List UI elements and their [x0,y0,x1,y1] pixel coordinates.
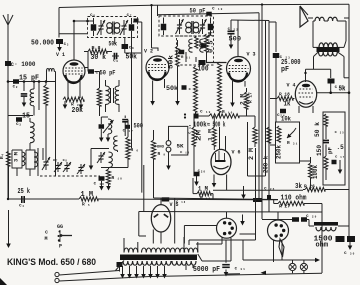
capacitor C30 electrolytic [336,236,356,242]
wire C23 down [275,58,277,122]
svg-text:50k: 50k [126,54,138,62]
wire OT frame [313,21,346,47]
svg-text:R 27: R 27 [279,204,290,210]
svg-text:c₃: c₃ [64,42,70,47]
wire T1 bottom taps [115,38,125,45]
svg-text:c· 1000: c· 1000 [11,61,36,68]
wire C25 down [317,84,351,94]
resistor R7 vertical [97,72,101,117]
ground arrow C18 [99,181,104,191]
capacitor T1 left [91,18,97,36]
ground arrow PT3 [141,266,146,279]
socket rectifier [217,215,245,239]
IF transformer T1 box [88,17,138,38]
svg-text:c₂: c₂ [13,85,18,90]
trimmer driver [97,152,105,163]
lamp PL1 [289,260,296,273]
svg-text:GG: GG [57,224,63,230]
label 110 ohm [281,195,307,203]
core T1 [113,22,115,35]
svg-text:10k: 10k [281,116,291,123]
svg-text:V 2: V 2 [144,49,153,55]
coil unit slug 1 [12,150,25,168]
svg-text:0.5 M: 0.5 M [208,32,215,53]
wire bus C [265,21,267,176]
capacitor C2 [13,79,20,89]
wire V6 legs [212,175,227,191]
label pF [281,66,289,74]
svg-text:R ₁₆: R ₁₆ [222,109,233,115]
wire bottom right bus [226,273,241,275]
ground arrow R10 [106,184,111,191]
tube V4 [295,81,316,107]
label 25.000 [281,59,301,67]
ground arrow PT5 [155,266,167,279]
label 500 block1 [134,123,144,130]
label 50.000 [31,40,54,48]
label R27 [279,204,290,210]
coil PT secondary [123,261,196,265]
coil RF pair A [106,80,110,112]
resistor R5 1M [79,197,98,208]
trimmer CT3 [63,159,72,172]
tube V2 [146,56,169,80]
resistor pot [277,126,281,142]
capacitor C17 [122,116,133,137]
coil T1 secondary [114,23,120,34]
coil RF pair B [115,80,119,112]
svg-text:c ₁₈: c ₁₈ [94,182,105,187]
capacitor C18 [94,176,105,186]
trimmer CT4 [77,164,85,174]
capacitor C9 [113,53,118,64]
wire lamp row top [243,240,320,262]
core PT [120,255,197,261]
svg-text:20k: 20k [72,107,84,115]
wire top B+ bus [59,4,349,7]
wire right edge [348,4,350,238]
svg-text:5K: 5K [177,143,185,150]
wire V1 grid top [73,57,75,60]
wire long vertical B [141,22,143,193]
coil voice B [313,17,346,21]
wire osc taps [186,52,196,62]
label 50 pF [100,70,116,77]
capacitor C10 [206,12,212,16]
wire V5 top [160,199,162,205]
wire block1 left [101,117,108,124]
wire driver bottom [101,168,128,170]
coil var block1 [103,119,114,142]
ground arrow tone [338,160,343,174]
ground arrow phono [166,152,171,170]
junction black [194,114,199,119]
coil osc A [189,39,193,52]
svg-text:KING'S Mod. 650 / 680: KING'S Mod. 650 / 680 [7,257,96,268]
trimmer T2 b [199,19,207,34]
resistor 2M mid [189,124,203,146]
svg-text:V 1: V 1 [56,52,65,58]
svg-text:ohm: ohm [316,242,329,250]
svg-text:5000 pF: 5000 pF [193,266,220,274]
trimmer T1 b [120,20,128,35]
svg-text:R ₃₁: R ₃₁ [287,140,298,146]
trimmer CT2 [53,159,62,172]
legend GG [57,224,63,230]
coil driver top [114,136,118,152]
wire C500 [229,20,234,49]
svg-text:c ₃₀: c ₃₀ [344,251,355,256]
junction blob IF1 out [133,19,142,23]
svg-text:c₉: c₉ [113,59,118,64]
svg-text:R ₁₅: R ₁₅ [200,195,211,201]
resistor R19 vert [253,121,257,147]
svg-text:2M: 2M [196,129,203,141]
label 50k mid [166,85,198,92]
tube V6 [211,149,231,174]
wire socket top [226,212,228,218]
label 1M left [81,191,94,199]
choke coil [316,227,336,231]
wire 2M mid [184,113,194,172]
svg-text:R 17: R 17 [248,92,254,103]
core T2 [192,21,193,34]
svg-text:c₄: c₄ [19,204,25,209]
resistor R20 vert [267,127,271,148]
svg-text:3 M: 3 M [13,151,20,162]
wire choke to caps [348,226,350,236]
label 5k [339,86,346,94]
capacitor C23 [273,53,291,60]
ground arrow C30 [348,242,353,250]
resistor R9 vert [151,130,165,198]
svg-text:2 M: 2 M [248,148,255,160]
svg-text:P: P [59,244,62,250]
wire C29 row [262,220,309,227]
svg-text:c₈: c₈ [63,159,68,163]
capacitor C4 [19,196,25,209]
svg-text:c₆: c₆ [90,13,96,18]
svg-text:100k≈: 100k≈ [193,122,210,130]
svg-text:50.000: 50.000 [31,40,54,48]
svg-text:c₂₀: c₂₀ [198,169,206,174]
label 15 lower [22,113,30,121]
label 50k lower [126,54,138,62]
capacitor C5b 50pF [88,69,101,75]
label 10k [281,116,291,123]
coil T2 secondary [193,22,199,33]
resistor R3 20k [63,97,84,102]
socket S2 pinout [268,220,289,241]
resistor 0.5M vert [205,34,209,62]
label R31 [287,140,298,146]
svg-text:c ₁₆: c ₁₆ [180,151,190,155]
label c19 [200,110,211,115]
wire V3 grid [206,20,238,62]
label 0.5 tone [335,131,345,151]
capacitor C11 [179,42,209,55]
label 100k 500k [193,122,226,130]
svg-text:.5: .5 [337,144,345,151]
coil OT top [313,43,344,48]
label FONO [155,146,165,150]
label R8 [92,45,101,51]
capacitor C25 [328,79,346,91]
coil T2 primary [186,22,192,33]
label c6 [90,13,96,18]
ground arrow PT2 [134,266,139,279]
svg-text:c₇: c₇ [53,159,58,163]
trimmer CT1 [42,157,50,170]
svg-text:c₃: c₃ [16,122,22,127]
label c30 [344,251,355,256]
wire V4 cathode [299,106,313,113]
svg-text:R ₅: R ₅ [82,202,90,208]
wire V1 legs [68,80,80,98]
wire bus 198 ext [154,198,279,200]
tube V1 [63,60,85,83]
label R3 [71,102,79,108]
wire socket bottom [196,237,231,261]
ground arrow C20 [194,176,199,186]
trimmer T1 a [97,20,105,35]
wire PT right taps [186,265,193,270]
svg-text:15: 15 [22,113,30,121]
svg-text:c ₂₉: c ₂₉ [306,214,317,219]
label 1M driver [198,186,208,193]
label 3k [295,183,315,191]
svg-text:c ₁₇: c ₁₇ [335,156,345,160]
label 25 k [18,188,31,196]
wire S2 legs [274,241,283,263]
ground arrow PT1 [120,266,132,279]
label 200k [263,156,270,173]
svg-text:R ₆: R ₆ [131,147,139,153]
svg-text:2 M: 2 M [240,94,247,105]
resistor R8 30k [84,49,112,54]
label 100 [198,66,209,74]
label 50k upper [109,41,118,48]
ground arrow V2 [175,66,180,106]
wire choke [309,225,349,227]
wire voice coil [308,17,349,19]
capacitor C15 [99,124,105,129]
label 15 pF [19,75,39,83]
label 30 k [91,54,107,62]
svg-text:200 k: 200 k [263,156,270,173]
label 1500 [314,236,334,244]
resistor long A [194,66,198,116]
legend c [45,230,48,236]
wire OT leads [314,52,350,78]
coil driver [109,152,113,168]
wire S2 top [277,212,279,220]
svg-text:50 pF: 50 pF [100,70,116,77]
wire long vertical A [131,38,133,149]
svg-text:c ₁₉: c ₁₉ [200,110,211,115]
svg-text:pF: pF [281,66,289,74]
wire right col [321,204,323,274]
wire driver row [91,149,109,161]
wire top-left drop [59,8,88,38]
label R18 [279,92,290,98]
capacitor C500 [228,27,242,43]
coil top-left corner [47,69,56,82]
ground arrow R3 right [79,101,84,109]
label V2 [144,49,153,55]
resistor R10 vert [106,169,122,184]
coil PT top-right [184,237,198,253]
resistor long B [218,62,222,116]
tone box right [323,112,345,185]
svg-text:100: 100 [198,66,209,74]
oscillator box [177,36,214,65]
tube V5 [151,205,170,232]
label 50k vert [168,55,175,69]
wire bus D [231,20,269,212]
label 5k phono [177,143,185,150]
wire bus B [261,5,263,219]
resistor R16 [199,114,245,118]
svg-text:c₈: c₈ [129,46,135,51]
coil unit slug 2 [26,150,38,169]
variable capacitor tuning [21,94,28,107]
wire V5 heater route [175,199,185,244]
volume pot box [276,122,300,163]
svg-text:50k: 50k [166,85,178,92]
svg-text:V 4: V 4 [287,83,296,89]
svg-text:R ₁₀: R ₁₀ [112,175,123,181]
label 100k vert [312,165,319,179]
svg-text:500: 500 [229,36,242,43]
wire V4 plate top [304,69,330,82]
coil RF core [111,88,114,103]
svg-text:FONO: FONO [155,146,165,150]
label 20k [72,107,84,115]
label 1k [284,101,291,109]
svg-text:c ₁₀: c ₁₀ [212,7,223,12]
resistor R27 110ohm [274,200,322,206]
switch mains [116,261,125,272]
phono jack box [169,126,188,155]
svg-text:c ₃₁: c ₃₁ [235,267,246,272]
resistor R15 [197,191,211,200]
label V1 [56,52,65,58]
label C1 value [11,61,36,68]
capacitor T2 right [208,18,214,36]
svg-text:3k: 3k [295,183,302,191]
capacitor bus D joint [267,195,271,200]
wire V5 legs [153,230,161,244]
label R6 [131,147,139,153]
svg-text:R ₉: R ₉ [158,151,166,157]
ground arrow driver left [89,160,94,170]
label c28 tone [335,156,345,160]
wire long vertical C [143,165,145,212]
svg-text:50x: 50x [109,41,118,48]
core OT [317,47,340,52]
pointer S2 [279,239,284,257]
wire bus A [158,13,260,200]
resistor R6 vert [126,120,130,168]
capacitor C31 [222,240,245,277]
capacitor T1 right [129,18,135,38]
ground arrow C15 [99,129,104,142]
IF transformer T2 box [159,16,214,36]
choke core [314,222,338,226]
tuning gang section wires [24,72,56,177]
label 2M lower [248,148,255,160]
svg-text:c ₁₅: c ₁₅ [189,124,193,134]
resistor 1M mid [207,116,217,150]
label c26 [264,187,275,192]
capacitor C100 [199,60,206,65]
trimmer T2 a [176,19,184,34]
legend M [45,236,48,242]
svg-text:500: 500 [134,123,144,130]
wire V2 legs [150,79,164,106]
label c10 [212,7,223,12]
label V4 [287,83,296,89]
wire AVC row [8,115,33,117]
coil T1 primary [107,23,113,34]
wire rect feed [184,225,216,227]
wire AC line 2 [59,273,322,281]
svg-text:V 3: V 3 [247,52,256,58]
svg-text:c ₂₂: c ₂₂ [228,27,239,32]
svg-text:V 6: V 6 [232,150,241,156]
AC plug [55,272,59,282]
svg-text:V 5: V 5 [170,202,179,208]
svg-text:M: M [45,236,48,242]
speaker cone [300,6,308,27]
wire AC line 1 [59,271,119,276]
label 2M vert [240,94,247,105]
wire bus 212 [139,212,322,237]
label R17 vert [248,92,254,103]
wire V6 top feeds [220,127,226,151]
resistor R21 3k [303,187,349,191]
capacitor on AVC bus [162,197,262,204]
wire V6 to bus [193,178,303,199]
resistor R17 2M [245,88,249,116]
ground arrow PT4 [148,266,153,279]
legend P [59,244,62,250]
coil L2 [30,118,34,150]
svg-text:c₇: c₇ [127,13,132,18]
label 50 pF top [190,8,206,15]
svg-text:30 k: 30 k [91,54,107,62]
label 5000 pF [193,266,220,274]
label V3 [247,52,256,58]
coil L1 antenna [30,89,34,116]
svg-text:pF: pF [327,147,334,154]
svg-text:c ₃₅: c ₃₅ [335,131,345,135]
resistor R2 vertical [44,85,48,105]
legend pins [58,230,73,242]
coil PT top-left [124,238,138,253]
wire socket lower [189,148,256,245]
wire IF2 box stub [157,6,159,17]
capacitor C20 [194,169,206,176]
svg-text:50k: 50k [168,55,175,69]
corner smudge [0,278,7,285]
capacitor T2 left [161,18,167,36]
wire antenna down [7,66,9,200]
coil OT bottom [319,52,338,56]
wire pot bottom [248,122,311,176]
wire 50.000 node [73,20,94,57]
